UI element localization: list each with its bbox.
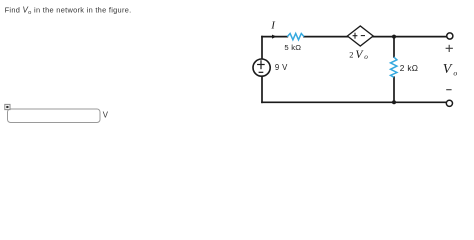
svg-text:2: 2 [349, 51, 353, 60]
svg-text:V: V [103, 110, 109, 119]
svg-text:o: o [453, 68, 457, 77]
svg-text:V: V [443, 62, 453, 77]
svg-text:V: V [355, 49, 364, 61]
svg-text:Find Vo in the network in the: Find Vo in the network in the figure. [5, 5, 132, 16]
svg-text:9 V: 9 V [275, 63, 288, 72]
svg-text:I: I [270, 20, 276, 32]
svg-text:o: o [364, 53, 368, 61]
svg-text:5 kΩ: 5 kΩ [284, 43, 301, 52]
svg-text:2 kΩ: 2 kΩ [400, 63, 418, 73]
